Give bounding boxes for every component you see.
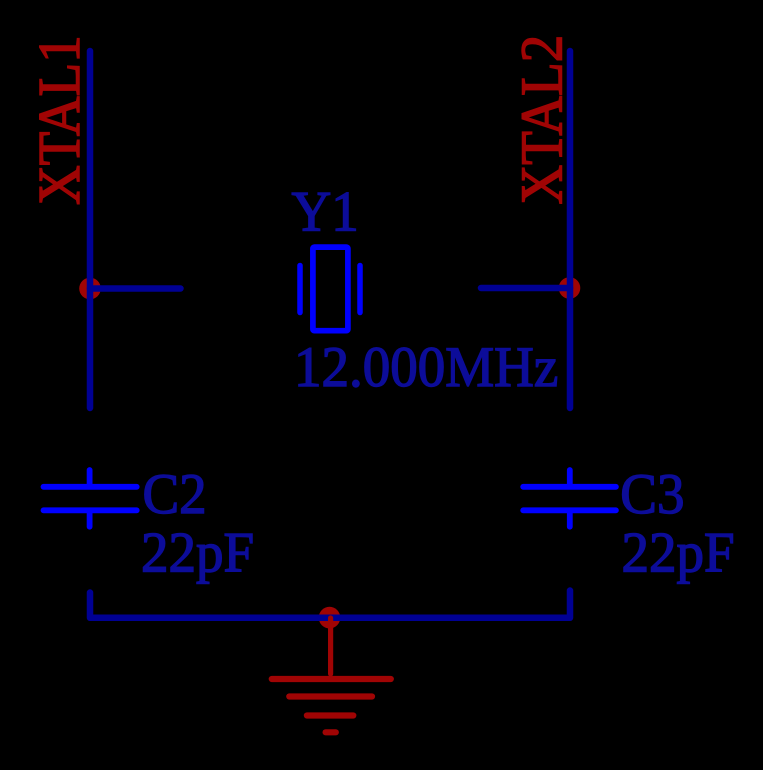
svg-text:22pF: 22pF [141,521,254,584]
ground stem [328,618,333,674]
ground bar 1 [272,676,391,682]
capacitor C2 top stub [87,470,93,484]
wire XTAL2 vertical [567,51,574,408]
svg-text:C3: C3 [620,463,684,526]
crystal Y1 right plate [357,266,363,313]
svg-text:XTAL1: XTAL1 [27,35,92,205]
crystal Y1 left plate [297,266,303,313]
junction node right [559,277,581,299]
wire bottom bus C2 to C3 [90,591,570,618]
wire right junction to crystal [481,285,570,292]
wire XTAL1 vertical [87,51,94,408]
capacitor C2 bottom plate [44,507,137,513]
capacitor C3 bottom stub [567,513,573,527]
capacitor C2 bottom stub [87,513,93,527]
capacitor C3 top plate [523,484,616,490]
svg-text:Y1: Y1 [292,180,359,243]
svg-text:XTAL2: XTAL2 [510,35,575,205]
ground bar 4 [326,729,336,735]
capacitor C2 top plate [44,484,137,490]
capacitor C3 bottom plate [523,507,616,513]
crystal Y1 body [313,247,348,331]
junction node left [79,278,101,300]
svg-text:12.000MHz: 12.000MHz [294,336,558,399]
wire left junction to crystal [90,285,181,292]
svg-text:22pF: 22pF [622,521,735,584]
capacitor C3 top stub [567,470,573,484]
svg-text:C2: C2 [143,463,207,526]
junction node ground [319,607,341,629]
ground bar 3 [307,712,353,718]
ground bar 2 [289,693,372,699]
